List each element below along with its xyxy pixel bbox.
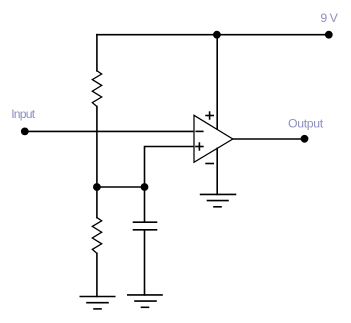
node: Input terminal dot: [21, 127, 29, 135]
op-amp U1 non-inverting input plus mark: [196, 143, 203, 150]
capacitor C1: [134, 222, 157, 230]
wire: junction A down to resistor R2: [96, 187, 98, 218]
junction A: R1/R2 node: [93, 183, 101, 191]
wire: input to op-amp inverting input: [25, 130, 194, 132]
op-amp U1 positive supply plus mark: [206, 112, 213, 119]
resistor R1: [92, 71, 101, 107]
ground (under R2): [80, 297, 114, 309]
wire: rail down to resistor R1: [96, 35, 98, 71]
node: Output terminal dot: [301, 135, 309, 143]
resistor R2: [92, 218, 101, 254]
ground (under C1): [128, 295, 162, 307]
wire: op-amp V- down to ground: [216, 148, 218, 194]
wire: R2 bottom to ground: [96, 253, 98, 296]
op-amp U1 inverting input minus mark: [196, 130, 203, 132]
junction B: capacitor node: [141, 183, 149, 191]
wire: rail junction down to op-amp V+: [216, 35, 218, 130]
wire: R1 bottom down to junction A: [96, 107, 98, 188]
wire: op-amp output: [233, 138, 305, 140]
svg-text:Output: Output: [288, 116, 324, 130]
wire: C1 bottom to ground: [144, 230, 146, 295]
op-amp U1 negative supply minus mark: [206, 163, 213, 165]
wire: 9V power rail: [97, 34, 329, 36]
wire: junction A to junction B: [97, 186, 145, 188]
node: 9V terminal dot: [325, 31, 333, 39]
junction: rail to op-amp supply: [213, 31, 221, 39]
op-amp U1 triangle: [194, 115, 233, 162]
svg-text:V: V: [330, 11, 339, 25]
svg-text:9: 9: [320, 11, 327, 25]
wire: junction B down to capacitor C1: [144, 187, 146, 222]
ground (op-amp supply): [201, 194, 236, 206]
svg-text:Input: Input: [11, 107, 36, 121]
wire: junction B up to op-amp non-inverting input: [145, 147, 194, 188]
